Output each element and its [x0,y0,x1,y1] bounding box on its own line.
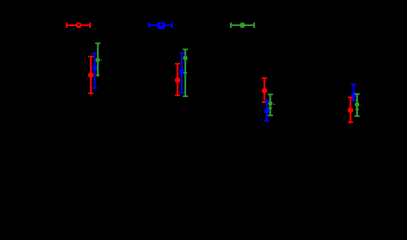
cluster 1 blue errorbar [92,53,97,88]
cluster 1 green stray dot [101,59,102,60]
cluster 3 green errorbar with mid triangle marker [268,94,273,115]
cluster 4 green faint stray dot [360,105,361,106]
cluster 3 blue errorbar [264,101,269,122]
cluster 2 green errorbar with mid triangle marker [183,49,188,96]
legend entry blue: horizontal errorbar sample with open square marker [149,22,172,29]
cluster 1 red errorbar [88,57,94,94]
cluster 4 red errorbar [348,97,354,122]
legend entry green: horizontal errorbar sample with filled circle marker [231,22,254,28]
cluster 4 green errorbar with mid triangle marker [355,94,360,116]
cluster 1 green errorbar with arrow lower end [95,43,100,77]
cluster 4 blue errorbar [351,84,356,100]
cluster 2 red errorbar [175,64,181,96]
legend entry red: horizontal errorbar sample with open circle marker [67,22,90,28]
cluster 3 red errorbar [262,78,268,102]
cluster 2 blue errorbar [179,53,184,93]
cluster 3 green stray dot [274,104,275,105]
